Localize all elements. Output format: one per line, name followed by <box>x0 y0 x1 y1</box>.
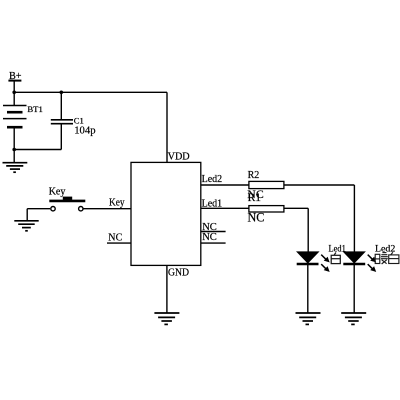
svg-text:Key: Key <box>109 196 125 208</box>
svg-text:104p: 104p <box>74 124 95 136</box>
svg-text:NC: NC <box>108 231 122 243</box>
svg-text:GND: GND <box>168 268 189 279</box>
svg-text:BT1: BT1 <box>27 104 42 114</box>
svg-text:Led1: Led1 <box>202 198 223 209</box>
svg-text:NC: NC <box>248 210 265 224</box>
svg-text:R2: R2 <box>248 170 260 181</box>
svg-text:NC: NC <box>202 232 217 243</box>
svg-text:B+: B+ <box>9 71 22 82</box>
svg-text:Led1: Led1 <box>329 244 346 255</box>
svg-text:NC: NC <box>247 187 264 201</box>
svg-text:Key: Key <box>49 187 66 198</box>
svg-text:VDD: VDD <box>168 152 190 163</box>
svg-text:Led2: Led2 <box>202 174 223 185</box>
